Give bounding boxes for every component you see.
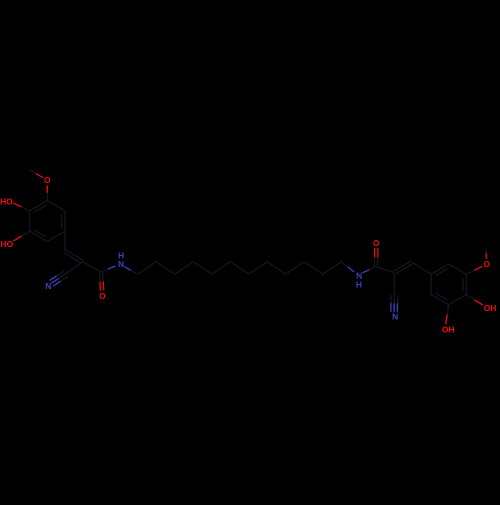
bond C-C nitrile (left) [66, 262, 83, 274]
benzene ring right [431, 264, 466, 305]
atom label O (left methoxy) [44, 175, 51, 185]
svg-text:OH: OH [484, 303, 497, 313]
svg-text:N: N [45, 281, 51, 291]
bond C-C carbonyl (left) [83, 262, 101, 272]
svg-text:O: O [44, 175, 51, 185]
benzene ring right aromatic inner lines [436, 269, 463, 301]
bond CH3-O (left methoxy) [29, 170, 43, 178]
bond O-CH3 (right methoxy) [485, 247, 488, 259]
bond O-C1 ring (left methoxy to ring) [46, 185, 48, 200]
atom label N (left nitrile) [45, 281, 51, 291]
svg-text:O: O [483, 259, 490, 269]
bond CH-ring (right vinyl to ring) [412, 262, 431, 274]
atom label O (left carbonyl) [99, 291, 106, 301]
atom label H (left amide) [118, 251, 124, 261]
svg-text:H: H [356, 279, 362, 289]
atom label N (left amide) [118, 259, 124, 269]
bond N-C carbonyl (right) [363, 267, 377, 273]
svg-text:HO: HO [0, 197, 13, 207]
atom label N (right amide) [356, 270, 362, 280]
bond ring-CH vinyl (left) [64, 231, 66, 251]
atom label H (right amide) [356, 279, 362, 289]
svg-text:N: N [118, 259, 124, 269]
atom label OH (bottom hydroxyl) [442, 324, 455, 334]
benzene ring left [30, 201, 65, 242]
atom label HO (left lower hydroxyl) [1, 239, 14, 249]
atom label OH (right hydroxyl) [484, 303, 497, 313]
bond ring-OH (right hydroxyl) [466, 295, 482, 306]
svg-text:O: O [99, 291, 106, 301]
triple bond C#N (left nitrile) [50, 271, 68, 286]
svg-text:HO: HO [1, 239, 14, 249]
svg-text:N: N [392, 312, 398, 322]
double bond C=CH (right vinyl) [393, 261, 412, 274]
atom label O (right methoxy) [483, 259, 490, 269]
triple bond C#N (right nitrile) [391, 295, 398, 312]
bond HO-ring (left lower hydroxyl) [13, 231, 29, 241]
svg-text:O: O [373, 238, 380, 248]
bond C-C (right carbonyl to vinyl) [376, 267, 394, 273]
double bond CH=C (left vinyl) [64, 250, 83, 263]
alkyl chain C1-C12 [138, 262, 342, 275]
atom label N (right nitrile) [392, 312, 398, 322]
atom label O (right carbonyl) [373, 238, 380, 248]
double bond C=O (left carbonyl) [99, 272, 103, 291]
svg-text:OH: OH [442, 324, 455, 334]
bond ring-O (right methoxy) [466, 266, 482, 274]
bond CH2-N (chain to right amide) [341, 262, 354, 272]
atom label HO (left upper hydroxyl) [0, 197, 13, 207]
double bond C=O (right carbonyl) [374, 248, 378, 266]
bond C-C nitrile (right) [393, 273, 395, 295]
bond N-CH2 (left amide to chain) [124, 267, 137, 275]
benzene ring left aromatic inner lines [34, 205, 62, 237]
bond C-N amide (left) [101, 266, 115, 272]
bond HO-ring (left upper hydroxyl) [13, 203, 29, 211]
bond ring-OH (bottom hydroxyl) [446, 305, 449, 324]
